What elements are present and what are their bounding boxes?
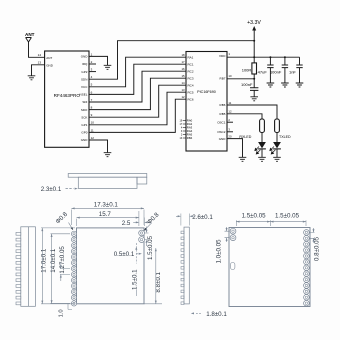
svg-text:14: 14 [38, 53, 42, 57]
ground (U1 pin1) [104, 65, 112, 69]
svg-text:SCK: SCK [81, 115, 87, 119]
svg-text:OSC2: OSC2 [217, 130, 226, 134]
antenna ANT [25, 32, 35, 42]
node: R1 bottom junction [253, 78, 255, 80]
svg-text:11: 11 [228, 101, 231, 105]
svg-text:RXLED: RXLED [239, 135, 251, 139]
svg-text:15: 15 [181, 74, 185, 78]
svg-text:1.0±0.05: 1.0±0.05 [216, 239, 223, 264]
resistor R1 100R [242, 57, 257, 79]
svg-text:1.5±0.05: 1.5±0.05 [147, 235, 154, 260]
mech: dim 1.5±0.05 (right pads) [145, 227, 154, 261]
svg-text:17.3±0.1: 17.3±0.1 [94, 202, 119, 209]
mech: dim 1.8±0.1 [191, 311, 228, 318]
wire U1 pin6 to U2 [89, 64, 186, 94]
capacitor C3 1nF [289, 57, 303, 83]
mech: module 1 top view body [77, 228, 145, 304]
mech: dim 2.3±0.1 [41, 186, 78, 193]
svg-text:1.5±0.1: 1.5±0.1 [131, 269, 138, 290]
mech: dim 2.6±0.1 [176, 214, 213, 226]
mech: dim 1.5±0.1 [131, 243, 138, 296]
svg-text:RC5: RC5 [188, 90, 194, 94]
svg-text:ANT: ANT [25, 32, 35, 37]
+3.3V supply [247, 20, 261, 57]
svg-text:12: 12 [228, 110, 232, 114]
label TXLED [279, 135, 291, 139]
svg-text:12: 12 [91, 136, 95, 140]
mech: side view (module 1) [68, 174, 147, 189]
wire U2 RB5 to R2/RXLED [227, 114, 262, 119]
svg-text:13: 13 [181, 88, 185, 92]
svg-text:ANT: ANT [46, 56, 52, 60]
svg-text:1.5±0.05: 1.5±0.05 [275, 212, 300, 219]
svg-text:1nF: 1nF [289, 69, 296, 74]
svg-text:16: 16 [181, 67, 185, 71]
ground (RXLED) [258, 157, 266, 161]
mech: dim 15.7 [77, 211, 139, 226]
svg-text:12: 12 [181, 95, 185, 99]
svg-text:100R: 100R [242, 67, 252, 72]
mech: left side strip (module 1) [16, 227, 35, 306]
svg-text:1.27±0.05: 1.27±0.05 [59, 246, 66, 274]
svg-text:RC1: RC1 [188, 62, 194, 66]
wire pin 13 to ground [32, 61, 45, 76]
svg-text:NSEL: NSEL [80, 93, 88, 97]
svg-text:10: 10 [228, 74, 232, 78]
svg-text:15.7: 15.7 [99, 211, 112, 218]
mech: dim 17.0±0.1 [41, 228, 76, 304]
mech: dim 1.27±0.05 [59, 246, 70, 281]
ground (C2) [281, 83, 289, 87]
wire U1 pin12 GND [89, 140, 108, 152]
node: rail junction with U1 VCC wire [253, 40, 255, 42]
svg-text:20: 20 [228, 135, 232, 139]
mech: module 2 bottom view body [229, 228, 310, 307]
svg-text:GP0: GP0 [81, 131, 87, 135]
wire U1 pin8 to U2 [89, 78, 186, 109]
svg-text:2.5: 2.5 [122, 220, 131, 227]
wire U1 pin7 to U2 [89, 71, 186, 102]
svg-text:SDO: SDO [81, 108, 88, 112]
svg-text:RC4: RC4 [188, 83, 194, 87]
svg-text:RC6: RC6 [188, 97, 194, 101]
svg-text:RF4463PRO: RF4463PRO [54, 93, 81, 98]
ground (TXLED) [273, 157, 281, 161]
ground (U2 GND) [239, 157, 247, 161]
LED RXLED [255, 142, 266, 157]
resistor R3 [275, 119, 280, 142]
svg-text:11: 11 [91, 128, 94, 132]
LED TXLED [270, 142, 281, 157]
svg-text:1.0: 1.0 [58, 309, 64, 317]
mech: dim 0.5±0.1 [114, 251, 142, 258]
wire VDD rail [227, 56, 300, 58]
svg-text:2.3±0.1: 2.3±0.1 [41, 186, 62, 193]
mech: dim 1.5±0.05 (module 2 right) [270, 212, 306, 226]
pin stub U1 pin2 [89, 63, 96, 65]
svg-text:SDN: SDN [81, 77, 87, 81]
mech: dim 17.3±0.1 [71, 202, 144, 225]
svg-text:17.0±0.1: 17.0±0.1 [41, 248, 48, 273]
capacitor 100nF (AVDD filter) [241, 79, 258, 97]
mech: module 2 top-left pads [230, 228, 236, 240]
mech: dim 1.0 (bottom) [58, 303, 72, 317]
node: rail top of R1 [253, 56, 255, 58]
wire antenna to pin 14 [29, 42, 45, 57]
mech: dim 8.8±0.1 [144, 248, 162, 304]
svg-text:47uF: 47uF [258, 69, 268, 74]
node: rail C2 [284, 56, 286, 58]
mech: dim 1.0±0.05 [216, 227, 230, 264]
svg-text:GP1: GP1 [81, 123, 87, 127]
svg-text:14.0±0.1: 14.0±0.1 [50, 248, 57, 273]
wire U1 pin11 to U2 [89, 99, 186, 132]
svg-text:0.8±0.05: 0.8±0.05 [313, 236, 320, 261]
svg-text:RB4: RB4 [187, 136, 193, 140]
svg-text:RB5: RB5 [220, 112, 226, 116]
ground (U1 pin12) [104, 153, 112, 157]
svg-text:RA1: RA1 [188, 55, 194, 59]
capacitor C1 47uF [258, 57, 274, 83]
mech: dim 14.0±0.1 [50, 234, 70, 304]
svg-text:VDD: VDD [219, 54, 226, 58]
svg-text:1.5±0.05: 1.5±0.05 [242, 212, 267, 219]
mech: dim 0.8±0.05 [310, 228, 320, 261]
pin stub U2 OSC1 [227, 121, 233, 123]
mech: label Φ0.8 (top-left) [54, 210, 73, 230]
wire U1 pin5 to U2 [89, 57, 186, 87]
svg-text:RC2: RC2 [188, 69, 194, 73]
svg-text:14: 14 [181, 81, 185, 85]
mech: module 1 top-right pads [139, 230, 145, 242]
svg-text:10: 10 [91, 121, 95, 125]
wire U1 pin1 GND [89, 56, 108, 65]
svg-text:0.5±0.1: 0.5±0.1 [114, 251, 135, 258]
svg-text:GND: GND [219, 137, 227, 141]
svg-text:GND: GND [46, 63, 54, 67]
svg-text:GP2: GP2 [81, 70, 87, 74]
capacitor C2 100nF [270, 57, 288, 83]
ground (C3) [296, 83, 304, 87]
svg-text:GND: GND [81, 55, 89, 59]
svg-text:VCC: VCC [81, 85, 88, 89]
wire R1 bottom to U2 RB7 [227, 78, 254, 80]
wire U1 pin10 to U2 [89, 92, 186, 125]
svg-text:+3.3V: +3.3V [247, 20, 261, 26]
svg-text:RB7: RB7 [220, 76, 226, 80]
mech: module 2 left slot [231, 263, 235, 270]
pin stub U1 pin3 [89, 71, 96, 73]
RF module U1 RF4463PRO [45, 51, 95, 147]
svg-text:IRQ: IRQ [82, 62, 88, 66]
svg-text:RC3: RC3 [188, 76, 194, 80]
svg-text:100nF: 100nF [270, 69, 282, 74]
mech: module 1 left pad row [71, 231, 76, 306]
svg-text:PIC16F690: PIC16F690 [197, 90, 216, 94]
svg-text:RB6: RB6 [220, 103, 226, 107]
resistor R2 [260, 119, 265, 142]
svg-text:1.8±0.1: 1.8±0.1 [206, 311, 227, 318]
svg-text:GND: GND [81, 138, 89, 142]
pin stub U2 OSC2 [227, 131, 233, 133]
svg-text:2.6±0.1: 2.6±0.1 [192, 214, 213, 221]
ground (antenna) [28, 76, 36, 80]
mech: label Φ0.8 (top-right) [144, 211, 161, 231]
svg-text:100nF: 100nF [241, 82, 253, 87]
svg-text:TXLED: TXLED [279, 135, 291, 139]
label RXLED [239, 135, 251, 139]
wire U1 pin9 to U2 [89, 85, 186, 117]
ground (C1) [267, 83, 275, 87]
MCU U2 PIC16F690 [180, 52, 232, 152]
svg-text:OSC1: OSC1 [217, 120, 226, 124]
mech: module 2 right pad row [304, 230, 310, 306]
svg-text:17: 17 [181, 60, 185, 64]
wire U1 pin4 VCC to +3.3V rail [89, 41, 254, 79]
mech: dim 1.5±0.05 (module 2 left) [236, 212, 270, 226]
node: rail C1 [269, 56, 271, 58]
mech: dim 2.5 [122, 218, 151, 227]
ground (100nF filter) [250, 97, 258, 101]
wire U2 RB6 to R3/TXLED [227, 105, 277, 119]
svg-text:18: 18 [181, 53, 185, 57]
svg-text:SDI: SDI [82, 100, 87, 104]
mech: side strip (module 2) [181, 227, 189, 304]
svg-text:13: 13 [38, 61, 42, 65]
wire U2 GND to ground [227, 139, 243, 157]
